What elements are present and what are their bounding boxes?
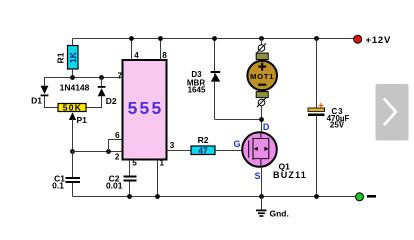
svg-text:G: G: [233, 139, 240, 149]
capacitor C2: [106, 174, 137, 197]
junction: [314, 194, 319, 199]
resistor R2: [191, 135, 215, 155]
wire pin 1: [157, 160, 159, 197]
junction: [259, 36, 264, 41]
svg-text:R1: R1: [55, 52, 65, 63]
wire pin 8: [160, 39, 162, 60]
wire pin 3: [168, 150, 192, 152]
carousel next button: [376, 84, 409, 141]
junction: [155, 194, 160, 199]
wire motor bottom to drain: [261, 106, 263, 132]
connector terminal top: [257, 43, 266, 52]
svg-text:47: 47: [198, 145, 208, 155]
motor MOT1: [247, 61, 277, 91]
potentiometer P1 50K: [58, 102, 86, 112]
svg-text:0.1: 0.1: [52, 181, 64, 191]
wire pin 6 branch: [109, 140, 122, 152]
svg-text:6: 6: [115, 131, 120, 140]
junction: [259, 117, 264, 122]
svg-text:1: 1: [160, 159, 165, 168]
transistor Q1 BUZ11: [242, 132, 277, 167]
svg-text:D1: D1: [31, 96, 42, 106]
IC 555 timer U1: [123, 60, 167, 160]
wire source: [261, 167, 263, 197]
svg-text:3: 3: [170, 141, 175, 150]
svg-text:1K: 1K: [68, 51, 78, 63]
connector terminal bottom: [257, 98, 266, 107]
junction: [127, 194, 132, 199]
junction: [259, 194, 264, 199]
wire pin 2: [73, 151, 122, 153]
junction: [70, 149, 75, 154]
diode D2: [86, 78, 117, 108]
wire motor top stub: [261, 39, 263, 45]
wire top +12V rail: [73, 38, 355, 40]
svg-text:D: D: [263, 122, 270, 132]
svg-text:BUZ11: BUZ11: [273, 170, 307, 180]
svg-text:1N4148: 1N4148: [60, 83, 90, 93]
junction: [129, 36, 134, 41]
capacitor C1: [52, 152, 80, 197]
svg-text:1645: 1645: [188, 86, 206, 95]
junction: [99, 75, 104, 80]
svg-text:MOT1: MOT1: [250, 72, 274, 81]
negative mark: [367, 195, 376, 198]
svg-text:4: 4: [134, 51, 139, 60]
motor terminal block bottom: [256, 92, 268, 98]
wire bottom ground rail: [73, 196, 356, 198]
diode D3: [187, 39, 220, 120]
terminal ground green: [356, 193, 364, 201]
wire diode row to pin 7: [44, 77, 122, 79]
junction: [70, 75, 75, 80]
potentiometer wiper arrow: [69, 112, 87, 151]
svg-text:25V: 25V: [330, 120, 345, 129]
svg-text:5: 5: [132, 159, 137, 168]
svg-text:8: 8: [162, 51, 167, 60]
junction: [106, 149, 111, 154]
junction: [158, 36, 163, 41]
terminal +12V: [354, 35, 362, 43]
svg-text:P1: P1: [77, 115, 88, 125]
wire pin 4: [131, 39, 133, 60]
junction: [212, 36, 217, 41]
wire D3 to drain node: [215, 119, 262, 121]
svg-text:+12V: +12V: [366, 35, 392, 46]
wire pin 5: [129, 160, 131, 176]
wire gate: [215, 150, 242, 152]
svg-text:R2: R2: [198, 135, 209, 145]
motor terminal block top: [256, 53, 268, 60]
svg-text:D2: D2: [106, 96, 117, 106]
svg-text:2: 2: [115, 153, 120, 162]
wire R1 top stub: [72, 39, 74, 46]
wire R1 bottom stub: [72, 69, 74, 78]
svg-text:555: 555: [128, 98, 164, 118]
capacitor C3: [308, 39, 350, 197]
svg-text:0.01: 0.01: [106, 181, 123, 191]
svg-text:S: S: [254, 171, 260, 181]
svg-text:50K: 50K: [63, 102, 83, 112]
resistor R1: [55, 46, 78, 70]
diode D1: [31, 78, 58, 108]
junction: [314, 36, 319, 41]
svg-text:Gnd.: Gnd.: [270, 209, 289, 219]
ground symbol: [256, 197, 267, 217]
